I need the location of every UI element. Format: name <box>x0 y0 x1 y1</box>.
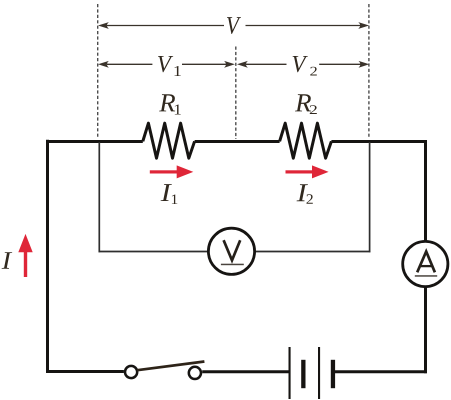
label R2 letter <box>295 94 311 111</box>
voltmeter underline <box>221 264 244 266</box>
voltmeter branch wire right horizontal <box>255 251 370 253</box>
wire top <box>46 140 427 143</box>
battery B1 short plate 2 <box>331 360 335 388</box>
label V2 subscript 2 <box>310 67 317 76</box>
dashed guide line middle <box>235 47 237 140</box>
switch S1 left contact <box>125 366 137 378</box>
dimension arrow V2 <box>237 61 369 68</box>
dimension arrow V1 <box>98 61 235 68</box>
battery B1 short plate 1 <box>301 360 305 388</box>
voltmeter M1 circle <box>208 228 254 274</box>
label I2 letter <box>297 184 308 201</box>
label V1 subscript 1 <box>175 66 181 76</box>
voltmeter branch wire left vertical <box>98 142 100 252</box>
resistor R2 <box>280 123 332 158</box>
label V <box>227 17 241 34</box>
wire bottom left <box>46 370 124 373</box>
voltmeter branch wire left horizontal <box>99 251 209 253</box>
label I2 subscript 2 <box>307 194 313 204</box>
label I <box>2 252 13 269</box>
resistor R1 <box>143 123 195 158</box>
wire right upper <box>424 140 427 242</box>
label R2 subscript 2 <box>310 105 317 114</box>
wire right lower <box>424 286 427 373</box>
label R1 subscript 1 <box>175 104 181 114</box>
label I1 subscript 1 <box>172 194 177 204</box>
current arrow I <box>18 234 32 277</box>
wire bottom right <box>335 370 427 373</box>
dashed guide line right <box>368 4 370 139</box>
wire bottom middle <box>202 370 289 373</box>
switch S1 right contact <box>189 367 201 379</box>
ammeter M2 circle <box>403 241 448 286</box>
battery B1 long plate 2 <box>318 347 320 399</box>
voltmeter letter V <box>224 240 241 260</box>
dimension arrow V <box>98 22 369 29</box>
current arrow I1 <box>150 165 194 178</box>
switch S1 lever <box>137 362 204 371</box>
dashed guide line left <box>97 4 99 139</box>
current arrow I2 <box>286 165 329 178</box>
label I1 letter <box>161 184 172 201</box>
label V1 letter <box>158 56 173 72</box>
ammeter letter A <box>417 252 435 273</box>
battery B1 long plate 1 <box>289 347 291 399</box>
wire left <box>46 140 49 373</box>
label V2 letter <box>293 56 308 72</box>
ammeter underline <box>415 275 437 277</box>
voltmeter branch wire right vertical <box>369 142 371 252</box>
label R1 letter <box>159 94 175 111</box>
